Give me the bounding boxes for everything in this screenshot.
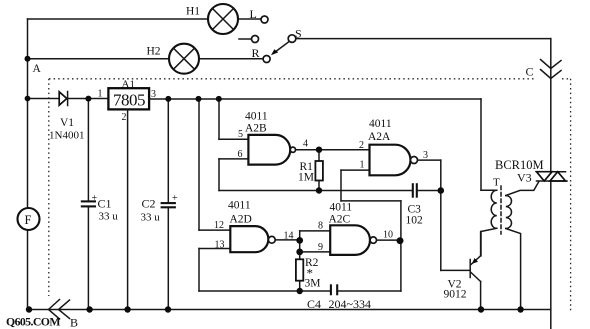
svg-text:C: C (526, 65, 534, 79)
svg-text:7805: 7805 (113, 91, 145, 110)
svg-text:V3: V3 (517, 171, 532, 185)
svg-text:2: 2 (359, 140, 364, 151)
svg-text:6: 6 (238, 149, 243, 160)
svg-text:A2D: A2D (230, 214, 252, 226)
svg-text:9: 9 (318, 242, 323, 253)
svg-text:204~334: 204~334 (329, 297, 372, 311)
svg-text:H1: H1 (186, 6, 200, 18)
svg-text:B: B (70, 316, 78, 329)
svg-text:4011: 4011 (228, 200, 251, 212)
svg-text:10: 10 (383, 230, 393, 241)
svg-text:1N4001: 1N4001 (49, 130, 84, 142)
svg-text:4: 4 (303, 139, 308, 150)
svg-text:1: 1 (360, 160, 365, 171)
svg-text:C1: C1 (98, 197, 112, 211)
svg-text:33 u: 33 u (141, 212, 161, 224)
svg-text:1M: 1M (298, 172, 314, 184)
svg-text:9012: 9012 (444, 289, 467, 301)
svg-text:V1: V1 (60, 117, 74, 129)
svg-text:8: 8 (318, 221, 323, 232)
svg-text:3M: 3M (305, 278, 321, 290)
svg-text:C2: C2 (142, 197, 156, 211)
svg-text:33 u: 33 u (99, 211, 119, 223)
svg-text:A1: A1 (122, 79, 135, 91)
svg-text:102: 102 (406, 215, 424, 227)
svg-text:R: R (252, 46, 260, 60)
svg-text:1: 1 (98, 89, 103, 100)
svg-text:2: 2 (122, 112, 127, 123)
svg-text:4011: 4011 (330, 202, 353, 214)
svg-text:12: 12 (214, 220, 224, 231)
svg-text:Q605.COM: Q605.COM (6, 315, 60, 329)
svg-text:A2A: A2A (368, 131, 391, 143)
svg-text:4011: 4011 (245, 111, 268, 123)
svg-text:T: T (493, 177, 500, 189)
svg-text:A2C: A2C (329, 214, 351, 226)
svg-text:5: 5 (238, 129, 243, 140)
svg-text:3: 3 (151, 89, 156, 100)
svg-text:S: S (295, 27, 302, 41)
svg-text:L: L (250, 7, 257, 21)
svg-text:3: 3 (423, 150, 428, 161)
svg-text:+: + (92, 193, 98, 204)
svg-text:C4: C4 (307, 297, 321, 311)
svg-text:A2B: A2B (245, 123, 267, 135)
svg-text:14: 14 (284, 231, 294, 242)
svg-text:A: A (33, 63, 42, 75)
svg-text:13: 13 (215, 240, 225, 251)
svg-text:+: + (172, 193, 178, 204)
svg-text:4011: 4011 (369, 118, 392, 130)
svg-text:H2: H2 (147, 46, 161, 58)
svg-text:F: F (25, 213, 32, 227)
